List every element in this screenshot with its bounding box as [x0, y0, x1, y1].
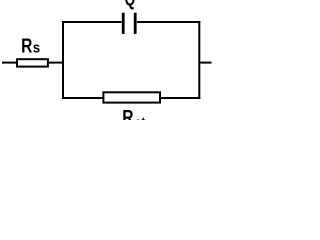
svg-text:Q: Q: [125, 0, 136, 10]
resistor Rct (bottom box): [103, 92, 160, 102]
wire: bottom rail right segment: [160, 97, 200, 99]
capacitor Q: right plate: [134, 13, 137, 34]
svg-text:R: R: [21, 35, 32, 57]
svg-text:R: R: [122, 106, 133, 120]
wire: Rs to left junction: [48, 62, 64, 64]
circuit schematic: Randles equivalent circuit Rs + (Q || Rct): [0, 0, 215, 120]
svg-text:s: s: [33, 40, 41, 56]
wire: right vertical branch: [198, 21, 200, 99]
wire: top rail right segment: [137, 21, 200, 23]
wire: right output lead: [199, 62, 211, 64]
wire: left vertical branch: [62, 21, 64, 99]
wire: top rail left segment: [62, 21, 122, 23]
wire: bottom rail left segment: [62, 97, 104, 99]
svg-text:ct: ct: [134, 115, 146, 120]
capacitor Q: left plate: [122, 13, 125, 34]
wire: left input lead: [2, 62, 17, 64]
resistor Rs (series box): [17, 59, 48, 66]
